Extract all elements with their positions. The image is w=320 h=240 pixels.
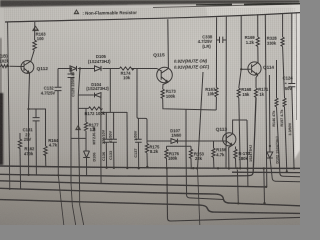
resistor R162 [18,133,21,150]
wire node x186 [167,109,224,199]
wire Q113 emitter [229,145,233,168]
capacitor C129 electrolytic [68,74,75,78]
capacitor C124 [288,84,295,87]
warning triangle R163 [32,25,39,31]
wire C136 branch [103,112,110,168]
resistor R168 [237,88,240,98]
wire header y112 [101,111,127,113]
arrow Q114 [255,72,258,75]
wire R328 drop [282,14,284,37]
resistor R163 [33,40,37,50]
diode D105 [95,66,102,71]
resistor R172 [89,107,103,110]
diode D102 [267,152,273,158]
left dark photo edge [0,38,2,98]
resistor R171 [254,88,257,98]
wire R175 [147,141,156,144]
wire D107 row [156,140,226,142]
node dot jog [27,108,29,110]
transistor Q115 [157,67,173,83]
node dot D102 [269,145,271,147]
bus4 step down [0,188,300,206]
wire base Q112 from left edge [0,65,24,67]
bus2 to R171 column [0,98,256,177]
capacitor C338 [217,37,226,43]
wire C137 branch [135,118,142,168]
resistor R153 [189,146,192,169]
capacitor C131 [33,118,40,121]
node dot diode row [79,67,81,69]
node dot base Q112 [7,65,9,67]
node dot C129 top [70,67,72,69]
wire D104 loop [78,69,101,109]
resistor R156 [212,141,215,168]
wire R173 corner to R167 [163,97,217,110]
diode D107 [171,139,178,144]
wire R168 bottom to bus1 [239,98,240,169]
node dots bus1 [105,167,107,169]
resistor R167 [215,88,218,98]
arrow Q112 [27,70,30,73]
wire R175 bottom [146,153,148,167]
wire R169 down to R168 [239,69,241,88]
transistor Q112 [21,61,34,74]
wire supply drop x265 [265,15,267,187]
wire C133 branch [110,112,117,168]
resistor R176 [165,146,168,169]
wire Q115 emitter to R173 [163,82,168,89]
resistor R328 [281,37,284,47]
wire R163 drop from rail [34,22,36,40]
grid texture of graph paper [4,8,296,170]
wire C129 branch [71,69,86,184]
wire Q115 base [157,69,161,72]
capacitor C132 [55,87,62,90]
wire R162 to bus4 [19,149,22,189]
wire R177 D106 chain [85,108,88,176]
transistor Q113 [223,133,236,146]
wire x127 drop [126,112,128,168]
node dot bus3 end [265,186,267,188]
diode D104 [95,93,102,98]
wire loop left down [78,108,79,190]
transistor Q114 [248,62,261,75]
resistor R174 [120,67,134,70]
resistor input 102k [1,65,10,68]
wire drop x137 [137,69,147,142]
wire Q115 collector to rail [167,19,170,68]
bus1 [0,166,300,168]
resistor R146 [275,98,278,107]
bright right edge of photo [291,0,300,160]
wire long drop left A [198,72,204,169]
wire R328 down to R157 [283,47,285,99]
wire R157 bottom [285,107,287,172]
left border wire [8,22,10,190]
resistor R170 [234,147,237,169]
wire right border [295,12,297,120]
wire R163 to Q112 collector [31,50,35,61]
bus3 [0,181,267,187]
node dot B1 right [263,202,265,204]
wire Q114 emitter down [256,75,258,88]
warning triangle R177 [75,125,81,130]
arrow Q115 [165,79,168,82]
top dark photo edge [0,0,300,7]
resistor R175 [145,144,148,154]
resistor R164 [44,146,47,156]
diode D103 [70,66,77,71]
wire D102 branch exit right [269,75,300,182]
arrow Q113 [229,142,232,145]
wire C132 branch [57,69,59,175]
resistor R157 [283,98,286,107]
wire R176 column deep drop to bottom exit [167,169,300,221]
wire Q114 base drop [241,16,251,69]
wire C131 branch [35,109,37,175]
wire R167 column to rail [215,17,217,87]
wire R170 below bus1 [236,170,239,203]
wire Q114 collector to rail [257,14,259,62]
page top edge line right [153,4,300,8]
wire loop right down [100,108,102,183]
wire C338 drop [225,17,227,169]
wire R146 bottom exit right [277,107,301,177]
resistor R169 on collector [256,37,259,47]
resistor R177 [84,122,87,131]
wire exit E1 [232,171,300,173]
wire B1 drop from bus1 [263,168,266,203]
wire Q112 emitter down [29,73,30,175]
wire jog to R164 line [29,109,46,146]
bus5 step down [0,200,300,214]
resistor R173 [161,89,164,99]
top supply rail [5,13,300,22]
wire R164 to bus1 [45,155,47,167]
node dot bus2 left [57,174,59,176]
node wire y68.5 diode row [58,68,157,70]
note non-flammable [73,9,137,16]
wire drop x247 [246,120,249,187]
wire R146 column [276,60,278,98]
wire Q113 collector [233,120,247,134]
wire C124 column [292,13,294,168]
zener D106 [83,151,90,158]
emitter arrows [27,70,259,146]
node dot E1 R157 [286,170,288,172]
wire drop x110 [109,69,111,113]
